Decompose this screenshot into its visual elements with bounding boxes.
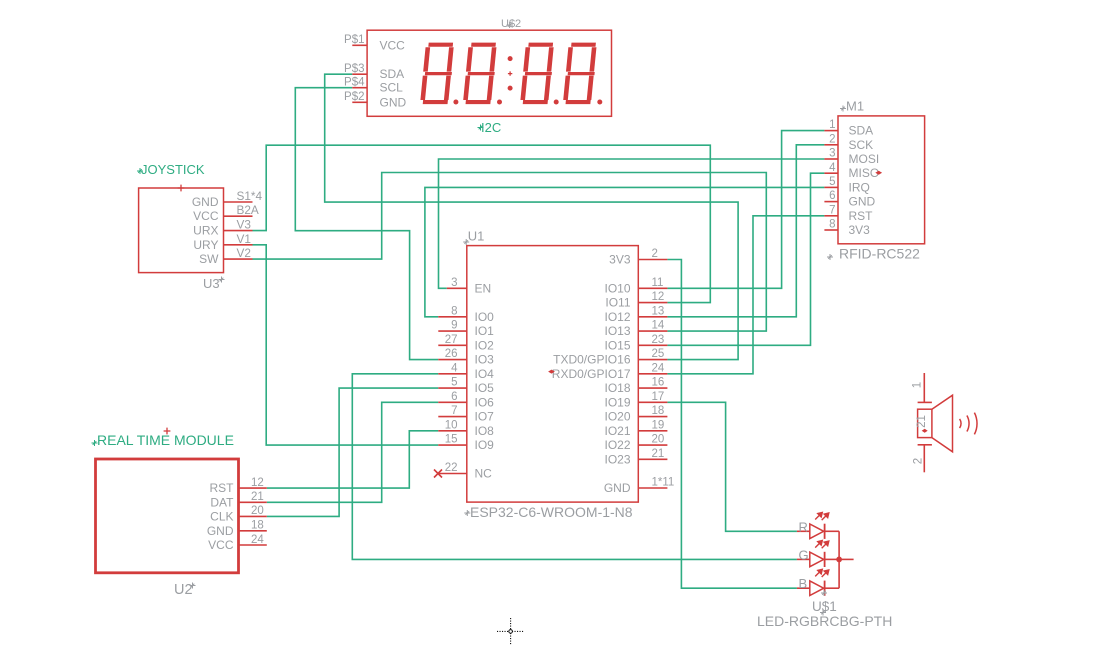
svg-text:R: R xyxy=(799,519,808,534)
RFID pin 1 SDA xyxy=(824,130,838,132)
ESP32 pin 3 EN xyxy=(447,287,467,289)
svg-text:V2: V2 xyxy=(237,246,251,260)
cursor mark RFID xyxy=(827,254,833,260)
wire net V1 joystick URY to ESP IO9 xyxy=(253,245,439,445)
cursor mark M1 xyxy=(840,106,846,112)
RTC pin 18 GND xyxy=(239,530,267,532)
real time module U2 box xyxy=(96,459,239,573)
svg-text:24: 24 xyxy=(652,362,665,374)
svg-text:IO19: IO19 xyxy=(604,395,630,409)
wire net RFID RST to ESP RXD0/GPIO17 xyxy=(667,216,824,374)
LED G emission arrows xyxy=(815,541,829,549)
svg-text:2: 2 xyxy=(829,133,835,145)
svg-text:MOSI: MOSI xyxy=(849,152,880,166)
svg-text:18: 18 xyxy=(251,520,264,532)
svg-text:8: 8 xyxy=(451,305,457,317)
svg-text:4: 4 xyxy=(829,162,836,174)
svg-text:IO9: IO9 xyxy=(475,438,495,452)
no-connect X on pin 22 xyxy=(434,470,442,478)
svg-text:IO22: IO22 xyxy=(604,438,630,452)
svg-text:GND: GND xyxy=(604,481,631,495)
svg-text:20: 20 xyxy=(652,434,665,446)
svg-text:B2A: B2A xyxy=(237,203,259,217)
diamond mark RXD0 xyxy=(548,370,555,374)
cursor mark RTC xyxy=(92,440,98,446)
wire net RTC CLK to ESP IO5 xyxy=(267,388,439,516)
ESP32 pin 4 IO4 xyxy=(438,373,467,375)
RTC pin 21 DAT xyxy=(239,501,267,503)
speaker body rect xyxy=(918,409,932,437)
LED G anode lead xyxy=(797,558,810,560)
svg-text:IO11: IO11 xyxy=(605,296,630,310)
svg-text:1: 1 xyxy=(829,119,835,131)
seven-segment digit 2 xyxy=(463,43,498,105)
svg-text:3V3: 3V3 xyxy=(849,223,871,237)
display pin P$4 SCL xyxy=(352,87,367,89)
cursor mark U$2 xyxy=(507,22,513,28)
ESP32 pin 7 IO7 xyxy=(438,416,467,418)
svg-text:P$4: P$4 xyxy=(344,77,365,89)
svg-text:11: 11 xyxy=(652,277,664,289)
wire net RTC RST to ESP IO8 xyxy=(267,431,439,488)
svg-text:6: 6 xyxy=(451,391,457,403)
svg-text:MISO: MISO xyxy=(849,166,880,180)
svg-text:IO1: IO1 xyxy=(475,324,495,338)
wire net RFID MISO to ESP IO15 xyxy=(667,173,824,345)
wire net SCL display to ESP IO3 xyxy=(295,88,438,360)
speaker pin 1 xyxy=(923,373,925,402)
svg-text:NC: NC xyxy=(475,467,493,481)
svg-text:IO10: IO10 xyxy=(604,281,630,295)
wire net SDA display to ESP TXD0/GPIO16 xyxy=(325,74,738,359)
cursor mark U3 xyxy=(219,277,225,283)
speaker sound arcs xyxy=(960,413,977,435)
svg-text:5: 5 xyxy=(451,377,457,389)
ESP32 pin 25 TXD0/GPIO16 xyxy=(638,359,667,361)
ESP32 pin 20 IO22 xyxy=(638,444,667,446)
decimal point 2 xyxy=(497,100,502,105)
LED R triangle xyxy=(810,524,824,539)
svg-text:24: 24 xyxy=(251,534,264,546)
svg-text:IO2: IO2 xyxy=(475,338,495,352)
svg-text:7: 7 xyxy=(451,405,457,417)
svg-text:V3: V3 xyxy=(237,218,252,232)
wire net RFID MOSI to ESP EN xyxy=(439,159,825,288)
svg-text:SCK: SCK xyxy=(849,138,874,152)
svg-text:VCC: VCC xyxy=(193,209,219,223)
svg-text:12: 12 xyxy=(251,477,264,489)
svg-text:6: 6 xyxy=(829,190,835,202)
svg-text:EN: EN xyxy=(475,281,492,295)
svg-text:SDA: SDA xyxy=(380,67,405,81)
RTC pin 20 CLK xyxy=(239,515,267,517)
ESP32 pin 11 IO10 xyxy=(638,287,667,289)
seven-segment digit 3 xyxy=(520,43,555,105)
svg-text:10: 10 xyxy=(445,419,458,431)
joystick pin GND net S1*4 xyxy=(224,201,253,203)
svg-text:IO18: IO18 xyxy=(604,381,630,395)
joystick pin VCC net B2A xyxy=(224,215,253,217)
svg-text:U3: U3 xyxy=(203,276,220,291)
wire net RFID SDA to ESP IO10 xyxy=(667,131,824,289)
svg-text:25: 25 xyxy=(652,348,665,360)
svg-text:DAT: DAT xyxy=(210,495,234,509)
svg-text:3V3: 3V3 xyxy=(609,253,631,267)
wire net ESP IO4 to LED G xyxy=(352,374,797,560)
joystick U3 box xyxy=(139,188,224,273)
joystick pin URY net V1 xyxy=(224,244,253,246)
decimal point 1 xyxy=(453,100,458,105)
svg-text:RST: RST xyxy=(849,209,874,223)
ESP32 pin 19 IO21 xyxy=(638,430,667,432)
speaker diamond mark xyxy=(922,429,928,433)
joystick pin URX net V3 xyxy=(224,230,253,232)
LED common stub xyxy=(839,558,854,560)
svg-text:SDA: SDA xyxy=(849,124,874,138)
display pin P$3 SDA xyxy=(352,73,367,75)
seven-segment digit 1 xyxy=(420,43,455,105)
svg-text:9: 9 xyxy=(451,320,457,332)
RFID-RC522 M1 box xyxy=(838,116,925,244)
svg-text:GND: GND xyxy=(207,524,234,538)
svg-text:RST: RST xyxy=(210,481,235,495)
svg-text:21: 21 xyxy=(916,415,928,428)
svg-text:1*11: 1*11 xyxy=(652,477,675,489)
RFID pin 8 3V3 xyxy=(824,229,838,231)
LED B emission arrows xyxy=(815,569,829,577)
svg-text:VCC: VCC xyxy=(208,538,234,552)
svg-text:SCL: SCL xyxy=(380,81,404,95)
svg-text:URY: URY xyxy=(193,238,218,252)
svg-text:3: 3 xyxy=(451,277,457,289)
speaker cone xyxy=(932,395,953,452)
LED B anode lead xyxy=(797,587,810,589)
ESP32 pin 23 IO15 xyxy=(638,344,667,346)
seven-segment digit 4 xyxy=(563,43,598,105)
RFID pin 7 RST xyxy=(824,215,838,217)
origin cross RTC xyxy=(164,428,171,435)
RFID pin 3 MOSI xyxy=(824,158,838,160)
ESP32 pin 12 IO11 xyxy=(638,302,667,304)
svg-text:23: 23 xyxy=(652,334,665,346)
svg-text:CLK: CLK xyxy=(210,509,233,523)
speaker pin 2 xyxy=(918,444,932,446)
ESP32 pin 15 IO9 xyxy=(438,444,467,446)
colon dots xyxy=(508,56,513,61)
svg-text:RXD0/GPIO17: RXD0/GPIO17 xyxy=(552,367,631,381)
svg-text:1: 1 xyxy=(912,382,924,388)
ESP32 pin 21 IO23 xyxy=(638,458,667,460)
ESP32 pin 26 IO3 xyxy=(438,359,467,361)
svg-text:RFID-RC522: RFID-RC522 xyxy=(839,246,920,262)
svg-text:7: 7 xyxy=(829,204,835,216)
LED R emission arrows xyxy=(815,512,829,520)
LED B cathode bar xyxy=(824,581,826,596)
wire net V2 joystick SW to ESP IO13 xyxy=(253,173,767,332)
svg-text:G: G xyxy=(799,547,809,562)
cursor mark I2C xyxy=(478,125,484,131)
ESP32 pin 17 IO19 xyxy=(638,401,667,403)
canvas origin crosshair xyxy=(497,618,524,645)
svg-text:27: 27 xyxy=(445,334,458,346)
svg-text:19: 19 xyxy=(652,419,665,431)
svg-text:GND: GND xyxy=(192,195,219,209)
diamond mark MISO xyxy=(875,171,882,175)
svg-text:U1: U1 xyxy=(468,229,485,244)
ESP32 pin 2 3V3 xyxy=(638,259,667,261)
RFID pin 4 MISO xyxy=(824,172,838,174)
cursor mark joystick xyxy=(137,168,143,174)
svg-text:IO15: IO15 xyxy=(604,338,630,352)
svg-text:21: 21 xyxy=(652,448,665,460)
RFID pin 6 GND xyxy=(824,201,838,203)
ESP32 pin 9 IO1 xyxy=(438,330,467,332)
LED G triangle xyxy=(810,552,824,567)
RTC pin 12 RST xyxy=(239,487,267,489)
svg-text:IO20: IO20 xyxy=(604,410,630,424)
cursor mark U1 xyxy=(463,239,469,245)
svg-text:ESP32-C6-WROOM-1-N8: ESP32-C6-WROOM-1-N8 xyxy=(470,504,633,520)
svg-text:P$3: P$3 xyxy=(344,63,364,75)
svg-text:2: 2 xyxy=(652,248,658,260)
svg-text:P$2: P$2 xyxy=(344,91,364,103)
svg-text:JOYSTICK: JOYSTICK xyxy=(141,162,205,177)
svg-text:VCC: VCC xyxy=(380,38,406,52)
ESP32 pin 18 IO20 xyxy=(638,416,667,418)
svg-text:3: 3 xyxy=(829,148,835,160)
svg-text:22: 22 xyxy=(445,462,458,474)
ESP32 pin 14 IO13 xyxy=(638,330,667,332)
svg-text:IO12: IO12 xyxy=(604,310,630,324)
ESP32 pin 27 IO2 xyxy=(438,344,467,346)
svg-text:12: 12 xyxy=(652,291,665,303)
ESP32 pin 5 IO5 xyxy=(438,387,467,389)
display U$2 box xyxy=(367,30,611,116)
svg-text:IO13: IO13 xyxy=(604,324,630,338)
display pin P$1 VCC xyxy=(352,44,367,46)
svg-text:I2C: I2C xyxy=(481,120,501,135)
RFID pin 5 IRQ xyxy=(824,186,838,188)
svg-text:GND: GND xyxy=(849,195,876,209)
ESP32 pin 16 IO18 xyxy=(638,387,667,389)
ESP32 pin 10 IO8 xyxy=(438,430,467,432)
svg-text:P$1: P$1 xyxy=(344,34,364,46)
svg-text:26: 26 xyxy=(445,348,458,360)
wire net V3 joystick URX to ESP IO11 xyxy=(253,145,711,302)
RFID pin 2 SCK xyxy=(824,144,838,146)
svg-text:IO23: IO23 xyxy=(604,452,630,466)
ESP32 pin 6 IO6 xyxy=(438,401,467,403)
svg-text:14: 14 xyxy=(652,320,665,332)
wire net RFID SCK to ESP IO12 xyxy=(667,145,824,317)
wire net RFID IRQ to ESP IO0 xyxy=(425,187,825,316)
LED G cathode bar xyxy=(824,552,826,567)
cursor mark US1 b xyxy=(820,610,826,616)
svg-text:13: 13 xyxy=(652,305,665,317)
ESP32 pin 1*11 GND xyxy=(638,487,667,489)
ESP32 pin 8 IO0 xyxy=(438,316,467,318)
ESP32 pin 22 NC xyxy=(438,473,467,475)
svg-text:REAL TIME MODULE: REAL TIME MODULE xyxy=(97,432,234,448)
cursor mark US1 xyxy=(821,590,827,596)
svg-text:IO3: IO3 xyxy=(475,353,495,367)
LED R cathode lead xyxy=(825,530,840,532)
LED G cathode lead xyxy=(825,558,840,560)
svg-text:4: 4 xyxy=(451,362,458,374)
svg-text:IO7: IO7 xyxy=(475,410,495,424)
svg-text:IO5: IO5 xyxy=(475,381,495,395)
joystick pin SW net V2 xyxy=(224,258,253,260)
svg-text:SW: SW xyxy=(199,252,219,266)
svg-text:IO6: IO6 xyxy=(475,395,495,409)
cursor mark ESP32 xyxy=(464,510,470,516)
svg-text:U2: U2 xyxy=(174,582,193,598)
junction common cathode xyxy=(836,557,842,563)
LED B cathode lead xyxy=(825,587,840,589)
svg-text:S1*4: S1*4 xyxy=(237,189,263,203)
svg-text:21: 21 xyxy=(251,491,264,503)
svg-text:URX: URX xyxy=(193,224,218,238)
RTC pin 24 VCC xyxy=(239,544,267,546)
decimal point 3 xyxy=(554,100,559,105)
ESP32 pin 13 IO12 xyxy=(638,316,667,318)
svg-text:16: 16 xyxy=(652,377,665,389)
svg-text:IO4: IO4 xyxy=(475,367,495,381)
svg-text:IO0: IO0 xyxy=(475,310,495,324)
LED common cathode wire xyxy=(838,531,840,588)
plus mark xyxy=(508,71,512,75)
display pin P$2 GND xyxy=(352,101,367,103)
wire net RTC DAT to ESP IO6 xyxy=(267,402,439,502)
LED B triangle xyxy=(810,581,824,596)
svg-text:LED-RGBRCBG-PTH: LED-RGBRCBG-PTH xyxy=(757,613,892,629)
decimal point 4 xyxy=(597,100,602,105)
svg-text:20: 20 xyxy=(251,505,264,517)
svg-text:M1: M1 xyxy=(846,99,864,114)
svg-text:18: 18 xyxy=(652,405,665,417)
svg-text:15: 15 xyxy=(445,434,458,446)
LED R anode lead xyxy=(797,530,810,532)
svg-text:2: 2 xyxy=(913,458,925,464)
ESP32 pin 24 RXD0/GPIO17 xyxy=(638,373,667,375)
svg-text:IRQ: IRQ xyxy=(849,180,870,194)
wire net ESP IO19 to LED R xyxy=(667,402,797,531)
svg-text:V1: V1 xyxy=(237,232,251,246)
svg-text:GND: GND xyxy=(380,95,407,109)
svg-text:8: 8 xyxy=(829,219,835,231)
origin cross joystick xyxy=(178,185,185,192)
svg-text:B: B xyxy=(799,576,808,591)
svg-text:IO8: IO8 xyxy=(475,424,495,438)
svg-text:TXD0/GPIO16: TXD0/GPIO16 xyxy=(553,353,631,367)
svg-text:5: 5 xyxy=(829,176,835,188)
ESP32 U1 box xyxy=(467,246,639,503)
svg-text:IO21: IO21 xyxy=(604,424,630,438)
LED R cathode bar xyxy=(824,524,826,539)
svg-text:17: 17 xyxy=(652,391,665,403)
cursor mark U2 xyxy=(190,583,196,589)
wire net ESP 3V3 to LED B xyxy=(667,260,797,589)
